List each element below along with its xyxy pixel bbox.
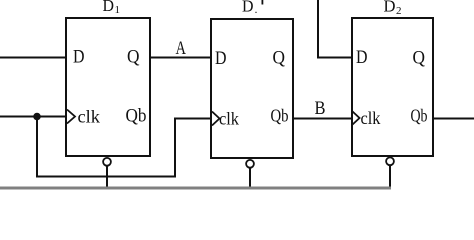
svg-text:Qb: Qb [271, 106, 289, 126]
svg-text:Q: Q [413, 48, 426, 69]
svg-text:Q: Q [273, 48, 286, 69]
svg-text:clk: clk [361, 108, 381, 128]
svg-text:2: 2 [396, 5, 402, 17]
svg-text:A: A [176, 38, 187, 59]
svg-text:D: D [384, 0, 396, 16]
svg-text:clk: clk [219, 109, 239, 129]
svg-text:B: B [315, 98, 326, 119]
svg-text:Qb: Qb [411, 106, 428, 126]
svg-text:D: D [242, 0, 254, 16]
svg-text:1: 1 [115, 4, 121, 16]
svg-text:Qb: Qb [126, 106, 147, 127]
svg-text:D: D [215, 48, 227, 69]
svg-text:D: D [103, 0, 115, 15]
svg-text:D: D [356, 47, 368, 68]
svg-text:D: D [73, 47, 85, 68]
svg-text:.: . [255, 2, 258, 16]
svg-text:Q: Q [127, 47, 140, 68]
svg-text:clk: clk [78, 107, 101, 127]
